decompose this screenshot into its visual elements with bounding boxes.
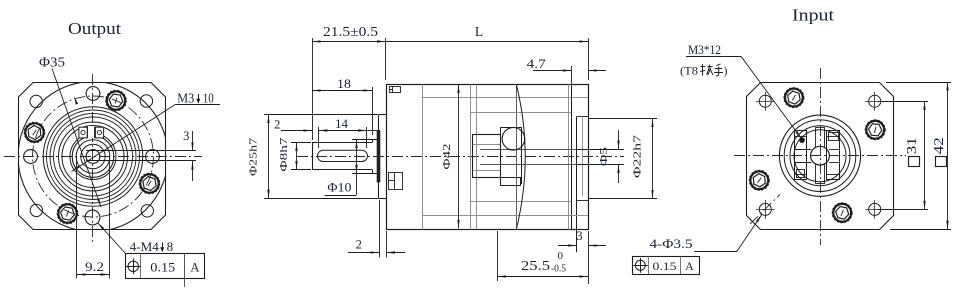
svg-text:Φ25h7: Φ25h7 — [248, 137, 260, 176]
svg-text:0.15: 0.15 — [653, 259, 677, 273]
svg-text:2: 2 — [356, 237, 362, 251]
svg-text:10: 10 — [203, 91, 214, 106]
svg-text:Φ10: Φ10 — [327, 180, 351, 194]
svg-text:-0.5: -0.5 — [551, 263, 566, 275]
svg-text:21.5±0.5: 21.5±0.5 — [323, 24, 378, 39]
svg-text:31: 31 — [905, 137, 920, 154]
svg-text:M3*12: M3*12 — [688, 42, 721, 57]
svg-text:4-Φ3.5: 4-Φ3.5 — [650, 236, 693, 251]
svg-text:Φ35: Φ35 — [39, 55, 65, 70]
svg-text:8: 8 — [167, 239, 174, 254]
svg-text:0.15: 0.15 — [150, 261, 175, 275]
svg-text:M3: M3 — [177, 91, 194, 106]
svg-text:18: 18 — [337, 77, 351, 91]
svg-text:): ) — [724, 64, 728, 78]
svg-text:Φ22h7: Φ22h7 — [632, 134, 644, 178]
svg-text:14: 14 — [335, 117, 349, 131]
svg-text:A: A — [685, 259, 694, 273]
svg-text:(T8: (T8 — [680, 64, 698, 78]
svg-text:Input: Input — [792, 6, 834, 25]
svg-text:A: A — [190, 261, 199, 275]
svg-text:L: L — [475, 24, 483, 39]
svg-text:Φ8h7: Φ8h7 — [278, 137, 290, 172]
svg-text:42: 42 — [932, 137, 947, 154]
svg-text:4-M4: 4-M4 — [130, 239, 159, 254]
svg-text:2: 2 — [274, 117, 280, 131]
svg-text:Φ5: Φ5 — [598, 146, 610, 166]
svg-text:25.5: 25.5 — [521, 258, 550, 273]
svg-text:3: 3 — [183, 129, 189, 143]
svg-text:4.7: 4.7 — [527, 57, 546, 71]
svg-text:3: 3 — [576, 229, 582, 243]
svg-text:9.2: 9.2 — [85, 260, 104, 274]
svg-text:Φ42: Φ42 — [441, 144, 453, 170]
svg-text:0: 0 — [558, 250, 564, 262]
svg-text:Output: Output — [68, 19, 121, 38]
